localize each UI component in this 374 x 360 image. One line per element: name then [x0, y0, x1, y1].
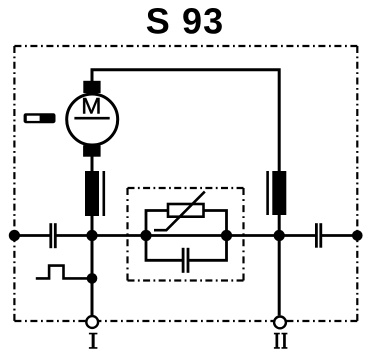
- capacitor C3 (inside suppressor box): plates: [182, 248, 190, 273]
- wire: inner loop top branch (varistor branch): [146, 211, 227, 236]
- junction node: bus below left choke: [86, 230, 97, 241]
- wire: horizontal bus, left border to left capacitor: [14, 234, 49, 237]
- capacitor C1 (left, in series on bus): plates: [49, 223, 56, 248]
- motor M: bar under letter: [74, 117, 109, 120]
- wire: left vertical, choke bottom through bus node and pulse junction to terminal I: [91, 215, 94, 315]
- junction node: suppressor box left: [140, 230, 151, 241]
- junction node: pulse branch: [87, 273, 98, 284]
- svg-text:S 93: S 93: [146, 1, 224, 42]
- RC suppressor enclosure (inner dash-dot box): [128, 188, 244, 281]
- wire: inner loop bottom branch left (to capacitor C3): [146, 236, 182, 261]
- suppression choke L2 (right): core bar: [272, 171, 286, 215]
- wire: horizontal bus, right capacitor to right border: [322, 234, 357, 237]
- wire: inner loop bottom branch right (from capacitor C3): [189, 236, 227, 261]
- junction node: bus at right border: [352, 230, 363, 241]
- wire: horizontal bus, left capacitor to right capacitor (through nodes): [57, 234, 316, 237]
- motor M: top terminal block: [83, 81, 100, 93]
- varistor R1: body rectangle: [168, 204, 204, 217]
- junction node: suppressor box right: [221, 230, 232, 241]
- wire: left vertical, motor bottom terminal to choke: [91, 155, 94, 172]
- plug connector symbol (left of motor): [24, 113, 56, 123]
- housing outline (dash-dot boundary box): [14, 46, 357, 321]
- pulse signal symbol (square wave at terminal I branch): [36, 266, 92, 279]
- suppression choke L1 (left): core bar: [85, 171, 99, 216]
- motor M: bottom terminal block: [83, 145, 101, 156]
- suppression choke L1 (left): parallel line: [103, 171, 106, 216]
- svg-text:M: M: [81, 94, 101, 119]
- junction node: bus at left border: [9, 230, 20, 241]
- varistor R1: diagonal stroke with foot: [154, 192, 205, 231]
- terminal II: circle: [274, 317, 286, 329]
- wire: right vertical, choke bottom through bus node to terminal II: [278, 214, 281, 315]
- suppression choke L2 (right): parallel line: [266, 171, 269, 215]
- terminal II: label: [274, 333, 288, 349]
- wire: motor top to right branch (top jumper): [92, 70, 279, 172]
- capacitor C2 (right, in series on bus): plates: [315, 223, 322, 248]
- terminal I: label: [89, 333, 98, 349]
- motor M: body circle: [67, 94, 118, 145]
- junction node: bus below right choke: [274, 230, 285, 241]
- terminal I: circle: [86, 316, 98, 328]
